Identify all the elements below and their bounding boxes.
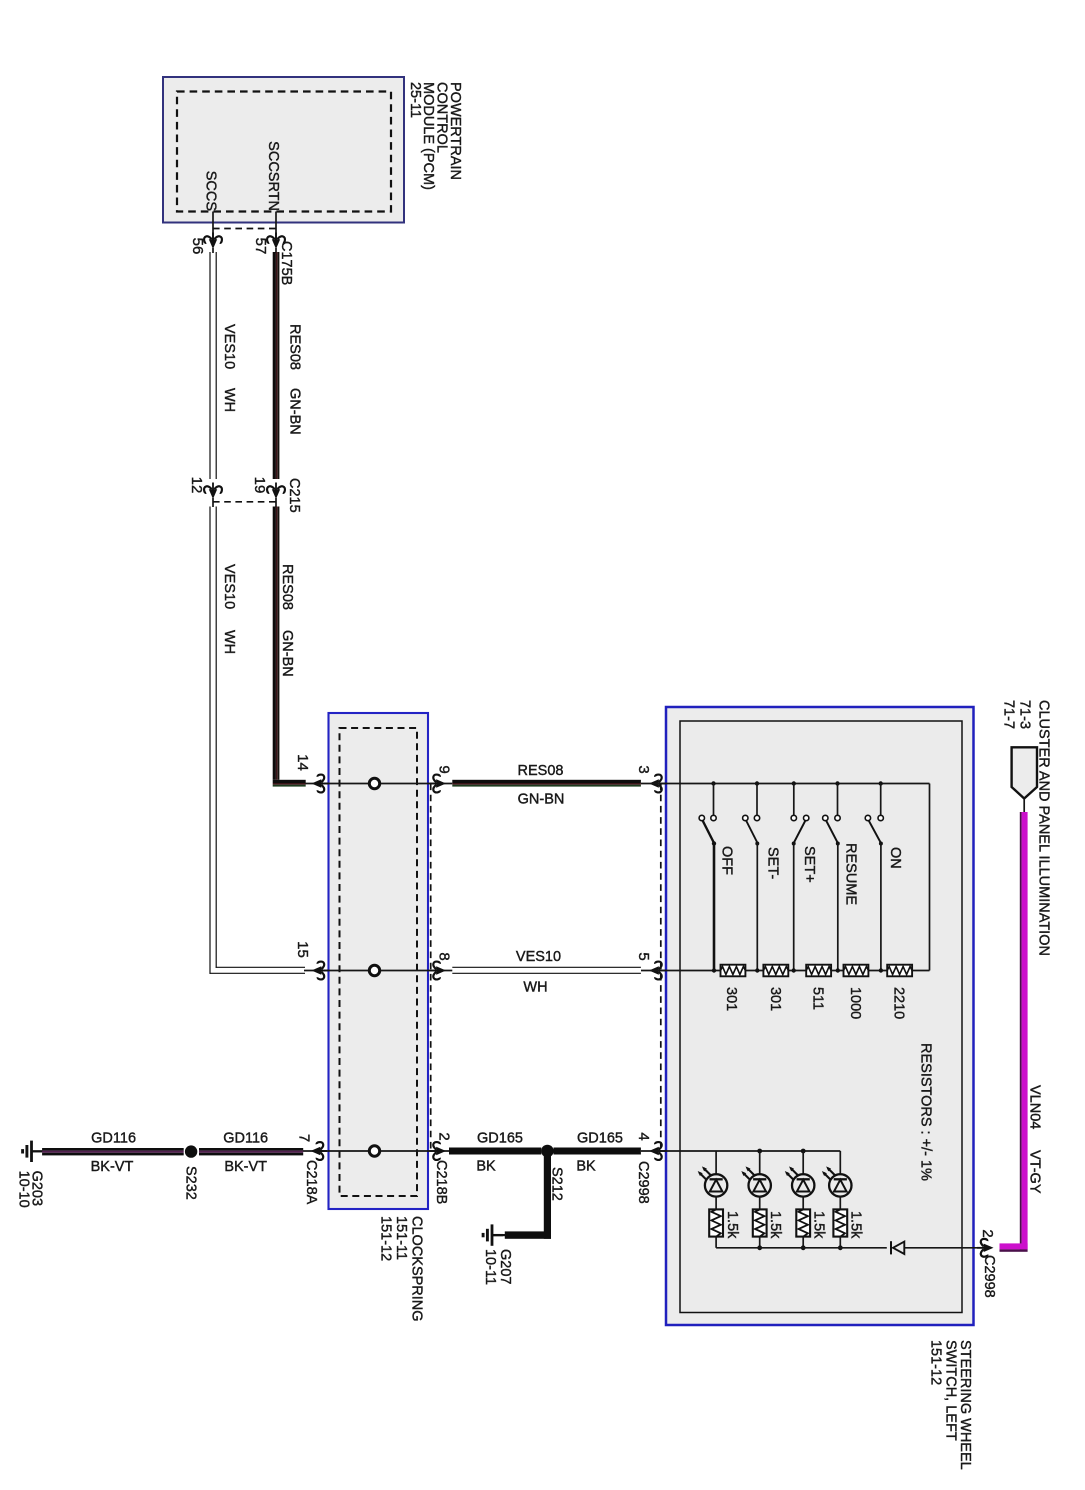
svg-text:VT-GY: VT-GY <box>1027 1150 1043 1194</box>
splice S232 <box>185 1145 197 1157</box>
svg-text:301: 301 <box>723 987 739 1011</box>
svg-text:2210: 2210 <box>891 987 907 1019</box>
switch label OFF <box>718 846 734 875</box>
switch RESUME <box>823 781 841 972</box>
wire RES08 horizontal into clockspring pin 14 <box>273 780 306 787</box>
switch label ON <box>887 847 903 869</box>
svg-text:GD116: GD116 <box>223 1131 268 1147</box>
PCM inner dashed box <box>177 92 391 212</box>
bus line from pin 3 <box>641 784 930 971</box>
LED return bus <box>716 1247 887 1249</box>
svg-text:SCCS: SCCS <box>203 171 219 211</box>
svg-text:CLUSTER AND PANEL ILLUMINATION: CLUSTER AND PANEL ILLUMINATION <box>1036 700 1052 956</box>
svg-text:56: 56 <box>189 238 206 255</box>
svg-text:C218B: C218B <box>433 1160 449 1204</box>
resistor label 1.5k (2) <box>767 1211 783 1239</box>
steering wheel switch box <box>666 707 974 1325</box>
switch OFF <box>699 781 716 972</box>
svg-text:15: 15 <box>294 941 311 958</box>
ground label G207 10-11 <box>482 1249 513 1285</box>
wire VES10 WH clockspring to steering switch (double line) <box>452 967 641 973</box>
diode D1 <box>891 1241 904 1254</box>
svg-text:10-10: 10-10 <box>16 1171 32 1208</box>
connector C175B pin 56 terminal <box>204 233 222 254</box>
svg-text:C2998: C2998 <box>635 1161 651 1204</box>
svg-text:VES10: VES10 <box>516 949 561 965</box>
svg-text:GD165: GD165 <box>577 1131 623 1147</box>
resistor value 1000 <box>847 987 863 1019</box>
svg-text:19: 19 <box>251 477 268 494</box>
svg-text:C218A: C218A <box>303 1160 319 1205</box>
svg-text:151-12: 151-12 <box>928 1340 944 1385</box>
PCM label POWERTRAIN CONTROL MODULE (PCM) 25-11 <box>407 82 463 190</box>
svg-text:BK-VT: BK-VT <box>91 1159 134 1175</box>
svg-text:1.5k: 1.5k <box>811 1211 827 1239</box>
wire GD165 BK splice S212 to steering switch <box>554 1148 641 1155</box>
svg-text:VES10: VES10 <box>221 324 237 369</box>
connector C215 dashed line <box>213 501 276 503</box>
pin number 15 <box>294 941 311 958</box>
wire label RES08 GN-BN (horizontal) <box>518 763 565 808</box>
wire label VLN04 <box>1027 1085 1043 1129</box>
connector C215 pin 12 terminal <box>204 483 222 508</box>
pin number 3 <box>635 765 652 773</box>
resistor label 1.5k (1) <box>724 1211 740 1239</box>
steering pin 5 terminal <box>649 962 666 980</box>
pin number 2 (C218B) <box>436 1132 453 1140</box>
svg-text:STEERING WHEEL: STEERING WHEEL <box>957 1340 973 1470</box>
wire VES10 WH vertical segment C215 to clockspring (double line with corner) <box>210 507 306 974</box>
svg-text:12: 12 <box>188 477 205 494</box>
resistor 1000 <box>844 965 869 977</box>
clockspring pin 15 terminal <box>312 962 329 980</box>
svg-text:3: 3 <box>635 765 652 773</box>
svg-text:RESUME: RESUME <box>843 843 859 905</box>
svg-text:SWITCH, LEFT: SWITCH, LEFT <box>942 1340 958 1441</box>
PCM module box <box>163 77 404 223</box>
svg-text:SCCSRTN: SCCSRTN <box>265 141 281 211</box>
switch ON <box>865 781 883 972</box>
connector label C175B <box>278 241 294 285</box>
svg-text:WH: WH <box>221 388 237 412</box>
pin number 8 <box>436 952 453 960</box>
LED branch 1 <box>698 1151 728 1248</box>
switch label RESUME <box>843 843 859 905</box>
switch label SET- <box>764 847 780 879</box>
svg-text:2: 2 <box>436 1132 453 1140</box>
resistor 2210 <box>887 965 912 977</box>
svg-text:VES10: VES10 <box>221 564 237 609</box>
svg-text:SET+: SET+ <box>801 846 817 883</box>
connector C215 pin 19 terminal <box>267 483 285 508</box>
svg-text:RES08: RES08 <box>287 324 303 370</box>
switch SET- <box>743 781 760 972</box>
svg-text:S232: S232 <box>183 1166 199 1200</box>
pin number 12 <box>188 477 205 494</box>
wire S212 to ground G207 <box>493 1151 551 1239</box>
off-page reference arrow to cluster <box>1012 747 1037 798</box>
pin label SCCS <box>203 171 219 211</box>
connector C218B dashed line <box>430 784 432 1152</box>
wire label VT-GY <box>1027 1150 1043 1194</box>
resistor value 2210 <box>891 987 907 1019</box>
connector C175B dashed line <box>213 228 276 230</box>
svg-text:BK: BK <box>576 1159 596 1175</box>
resistor value 511 <box>810 987 826 1010</box>
resistor 511 <box>806 965 831 977</box>
svg-text:57: 57 <box>252 238 269 255</box>
svg-text:SET-: SET- <box>764 847 780 879</box>
svg-text:WH: WH <box>221 630 237 654</box>
LED branch 3 <box>785 1149 815 1251</box>
svg-text:4: 4 <box>635 1132 652 1140</box>
resistor label 1.5k (3) <box>811 1211 827 1239</box>
svg-text:RES08: RES08 <box>518 763 564 779</box>
svg-text:1.5k: 1.5k <box>848 1211 864 1239</box>
wire label VES10 WH (upper) <box>221 324 237 412</box>
wire stub pin 57 <box>275 212 277 241</box>
pin number 56 <box>189 238 206 255</box>
steering pin 4 terminal <box>649 1142 666 1160</box>
svg-text:GN-BN: GN-BN <box>279 630 295 677</box>
svg-text:WH: WH <box>523 980 547 996</box>
svg-text:1000: 1000 <box>847 987 863 1019</box>
page reference 71-3 71-7 <box>1000 700 1032 729</box>
connector label C2998 (lower left) <box>635 1161 651 1204</box>
svg-text:G207: G207 <box>497 1249 513 1284</box>
svg-text:CLOCKSPRING: CLOCKSPRING <box>409 1216 425 1322</box>
stub from arrow to wire <box>1023 799 1025 814</box>
svg-text:71-3: 71-3 <box>1017 700 1033 729</box>
switch SET+ <box>791 781 809 972</box>
wire row 15-8 thin line through clockspring <box>304 970 452 972</box>
wire label GD165 BK (right) <box>576 1131 623 1175</box>
connector C175B pin 57 terminal <box>267 233 285 254</box>
LED bus line from pin 4 <box>641 1150 840 1152</box>
pin number 9 <box>436 765 453 773</box>
wire RES08 GN-BN vertical segment C175B to C215 <box>273 252 280 479</box>
wire row 14-9 thin line through clockspring <box>306 783 453 785</box>
clockspring pin 7 terminal <box>311 1142 328 1160</box>
svg-text:C175B: C175B <box>278 241 294 285</box>
clockspring coil symbol row 2 <box>369 965 379 975</box>
label RESISTORS : +/- 1% <box>918 1043 934 1181</box>
connector label C2998 (right) <box>981 1255 997 1298</box>
steering switch box label STEERING WHEEL SWITCH, LEFT 151-12 <box>928 1340 973 1470</box>
resistor ladder line from pin 5 <box>641 970 930 972</box>
svg-text:5: 5 <box>635 952 652 960</box>
clockspring box <box>329 713 429 1209</box>
svg-text:1.5k: 1.5k <box>767 1211 783 1239</box>
svg-text:RESISTORS : +/- 1%: RESISTORS : +/- 1% <box>918 1043 934 1181</box>
ground label G203 10-10 <box>16 1171 45 1208</box>
svg-text:BK: BK <box>476 1159 496 1175</box>
svg-text:25-11: 25-11 <box>407 82 423 118</box>
svg-text:ON: ON <box>887 847 903 869</box>
pin number 7 <box>296 1134 313 1142</box>
LED branch 2 <box>741 1149 771 1251</box>
wire VES10 WH vertical segment C175B to C215 (double line) <box>210 252 216 479</box>
svg-text:511: 511 <box>810 987 826 1010</box>
connector label C218B <box>433 1160 449 1204</box>
clockspring coil symbol row 3 <box>369 1146 379 1156</box>
resistor value 301 (second) <box>767 987 783 1011</box>
switch label SET+ <box>801 846 817 883</box>
svg-text:GN-BN: GN-BN <box>518 792 565 808</box>
pin number 2 (C2998) <box>979 1229 996 1237</box>
wire label RES08 GN-BN (lower) <box>279 564 295 677</box>
svg-text:151-11: 151-11 <box>393 1216 409 1260</box>
resistor 301 (second) <box>763 965 788 977</box>
svg-text:151-12: 151-12 <box>378 1216 394 1261</box>
LED branch 4 <box>822 1151 852 1250</box>
svg-text:VLN04: VLN04 <box>1027 1085 1043 1129</box>
wire label GD116 BK-VT (right) <box>223 1131 268 1176</box>
wire label GD165 BK (left) <box>476 1131 523 1175</box>
svg-text:C2998: C2998 <box>981 1255 997 1298</box>
wire label GD116 BK-VT (left) <box>91 1131 136 1176</box>
svg-text:C215: C215 <box>286 478 302 513</box>
wire RES08 GN-BN vertical segment C215 to clockspring with corner <box>273 507 280 780</box>
resistor label 1.5k (4) <box>848 1211 864 1239</box>
steering wheel switch inner box <box>680 721 962 1313</box>
wire VLN04 VT-GY corner to C2998 <box>1000 1243 1028 1251</box>
wire label RES08 GN-BN (upper) <box>287 324 303 435</box>
connector C2998 dashed line <box>660 784 662 1152</box>
svg-text:10-11: 10-11 <box>482 1249 498 1285</box>
svg-text:RES08: RES08 <box>279 564 295 610</box>
pin number 14 <box>294 754 311 771</box>
svg-text:14: 14 <box>294 754 311 771</box>
connector C2998 pin 2 terminal <box>977 1239 994 1257</box>
clockspring inner dashed box <box>340 728 418 1196</box>
resistor value 301 (first) <box>723 987 739 1011</box>
wire VLN04 VT-GY vertical <box>1020 812 1028 1249</box>
pin number 4 <box>635 1132 652 1140</box>
svg-text:7: 7 <box>296 1134 313 1142</box>
svg-text:71-7: 71-7 <box>1000 700 1016 729</box>
ground G203 <box>23 1141 43 1162</box>
clockspring pin 14 terminal <box>312 775 329 793</box>
connector label C218A <box>303 1160 319 1205</box>
svg-text:BK-VT: BK-VT <box>224 1159 267 1175</box>
wire GD116 BK-VT splice S232 to C218A <box>199 1148 303 1155</box>
clockspring pin 9 terminal <box>430 775 447 793</box>
splice label S212 <box>549 1167 565 1201</box>
ground G207 <box>483 1224 503 1245</box>
wire stub pin 56 <box>212 212 214 241</box>
wire GD165 BK C218B to splice S212 <box>449 1148 541 1155</box>
svg-text:9: 9 <box>436 765 453 773</box>
svg-text:301: 301 <box>767 987 783 1011</box>
splice S212 <box>541 1145 554 1158</box>
clockspring coil symbol row 1 <box>369 778 379 788</box>
svg-text:GD165: GD165 <box>477 1131 523 1147</box>
resistor 301 (first) <box>721 965 746 977</box>
pin number 19 <box>251 477 268 494</box>
steering pin 3 terminal <box>649 775 666 793</box>
label CLUSTER AND PANEL ILLUMINATION <box>1036 700 1052 956</box>
wire diode to connector C2998 pin 2 <box>904 1247 988 1249</box>
wire row 7-2 thin line through clockspring <box>303 1150 450 1152</box>
pin number 5 <box>635 952 652 960</box>
splice label S232 <box>183 1166 199 1200</box>
wire GD116 BK-VT ground to splice S232 <box>42 1148 184 1155</box>
pin label SCCSRTN <box>265 141 281 211</box>
svg-text:GD116: GD116 <box>91 1131 136 1147</box>
clockspring pin 8 terminal <box>430 962 447 980</box>
svg-text:1.5k: 1.5k <box>724 1211 740 1239</box>
svg-text:8: 8 <box>436 952 453 960</box>
clockspring pin 2 terminal C218B <box>430 1142 447 1160</box>
connector label C215 <box>286 478 302 513</box>
svg-text:GN-BN: GN-BN <box>287 388 303 435</box>
clockspring label CLOCKSPRING 151-11 151-12 <box>378 1216 425 1322</box>
wire RES08 GN-BN clockspring to steering switch <box>452 780 641 787</box>
wire label VES10 WH (horizontal) <box>516 949 561 996</box>
wire label VES10 WH (lower) <box>221 564 237 654</box>
svg-text:2: 2 <box>979 1229 996 1237</box>
svg-text:OFF: OFF <box>718 846 734 875</box>
pin number 57 <box>252 238 269 255</box>
